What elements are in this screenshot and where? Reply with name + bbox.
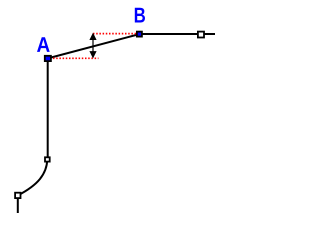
wire: segment A to B [48, 34, 140, 58]
wire: vertical segment below node A [47, 58, 49, 159]
node: hollow control point middle left [45, 157, 50, 161]
node: hollow control point right [198, 32, 204, 38]
node A (selected, blue square) [45, 56, 51, 61]
wire: horizontal segment from B to right edge [139, 33, 215, 35]
label B [135, 8, 145, 23]
node B (selected, blue square) [137, 32, 142, 37]
guide: red dotted line at node B level [93, 33, 136, 35]
node: hollow control point bottom left [15, 193, 20, 198]
wire: curve between lower control points [18, 159, 48, 195]
arrow: vertical double-headed measure arrow [89, 33, 96, 59]
wire: bottom vertical segment [17, 195, 19, 213]
guide: red dotted line at node A level [53, 57, 99, 59]
label A [37, 37, 50, 52]
